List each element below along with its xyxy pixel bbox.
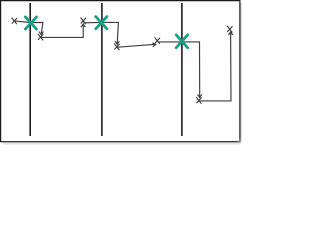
node x5 (155, 37, 160, 44)
arrowhead into x6 (down) (198, 94, 202, 97)
arrowhead into x4 (down) (115, 41, 119, 44)
lifeline 3 (181, 3, 183, 136)
shadow right (241, 3, 243, 143)
node x1 (12, 18, 17, 25)
frame top (0, 0, 240, 2)
frame left (0, 0, 2, 142)
wire G: x5 through teal X3 then down to node x6 (158, 42, 200, 98)
teal X marker X1 (25, 17, 36, 29)
wire B: teal X1 right then down to node x2 (30, 23, 43, 35)
wire C: x2 right then up to node x3 (41, 24, 83, 37)
wire H: x6 right then up to node x7 (199, 32, 231, 101)
node x6 (196, 97, 201, 104)
wire E: teal X2 right then down to node x4 (102, 22, 119, 44)
shadow bottom (3, 142, 241, 144)
arrowhead into x3 (up) (81, 24, 85, 27)
arrowhead into x5 (right) (152, 43, 156, 47)
frame right (239, 0, 241, 142)
node x4 (114, 44, 119, 51)
node x3 (81, 18, 86, 25)
lifeline 2 (101, 3, 103, 136)
node x2 (38, 34, 43, 41)
wire D: x3 to teal X2 (83, 21, 101, 23)
arrowhead into x7 (up) (228, 32, 232, 35)
wire A: node x1 to teal X1 (15, 21, 30, 22)
panel background (0, 0, 242, 146)
teal X marker X3 (176, 35, 188, 48)
teal X marker X2 (96, 17, 107, 29)
arrowhead into x2 (down) (39, 32, 43, 35)
wire F: x4 to node x5 (118, 44, 156, 47)
node x7 (227, 26, 232, 33)
lifeline 1 (29, 3, 31, 136)
frame bottom (0, 141, 240, 143)
